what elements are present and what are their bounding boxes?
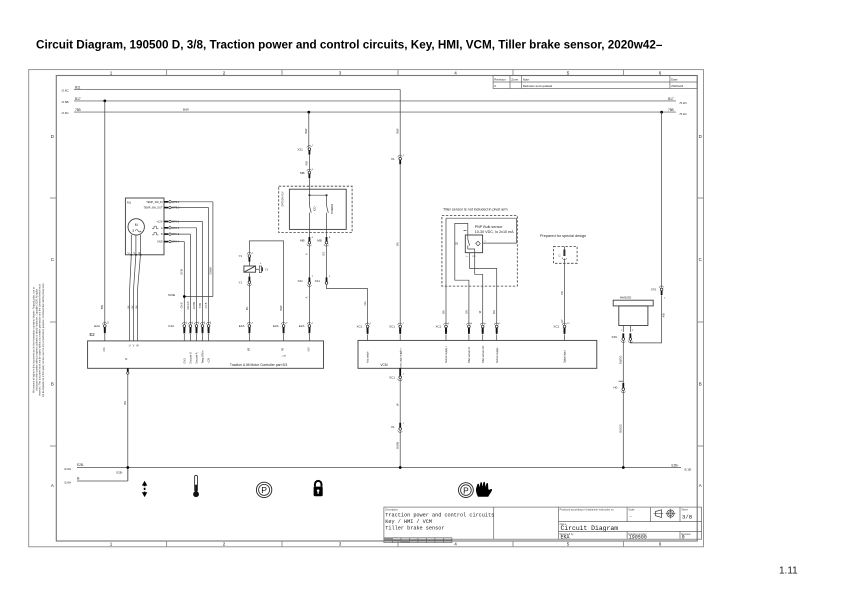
wire POWER to VCM key switch xyxy=(327,285,368,325)
svg-text:C: C xyxy=(699,257,702,262)
svg-text:Tiller sensor DO: Tiller sensor DO xyxy=(482,346,485,363)
svg-text:Scale: Scale xyxy=(628,509,635,512)
svg-text:PK: PK xyxy=(560,291,564,295)
svg-text:Sensor supply +: Sensor supply + xyxy=(445,345,448,363)
svg-text:MTB.2: MTB.2 xyxy=(172,207,180,210)
svg-text:BU: BU xyxy=(123,401,127,405)
controller B- pin and wire xyxy=(123,368,129,481)
icon hand xyxy=(476,482,492,497)
svg-text:1: 1 xyxy=(110,542,113,547)
svg-text:Y1: Y1 xyxy=(239,254,243,258)
svg-text:/5.1D: /5.1D xyxy=(680,101,688,105)
svg-text:75B: 75B xyxy=(75,108,81,112)
svg-text:D: D xyxy=(51,134,54,139)
svg-text:+12V: +12V xyxy=(157,221,163,224)
copyright note (rotated) xyxy=(33,283,45,398)
switch POWER xyxy=(327,195,334,229)
svg-text:Y1: Y1 xyxy=(239,280,243,284)
mini scale ruler xyxy=(384,538,452,543)
svg-text:GND: GND xyxy=(400,363,402,368)
svg-text:Logic supply +: Logic supply + xyxy=(399,347,402,363)
wire B17 to E2A (BN) xyxy=(100,101,105,325)
svg-text:190500: 190500 xyxy=(629,534,647,540)
connector X21 pin (key feed) xyxy=(298,145,314,155)
svg-text:TEMP_SW_OUT: TEMP_SW_OUT xyxy=(143,207,163,210)
svg-text:BK: BK xyxy=(127,305,130,309)
svg-text:MTB.1: MTB.1 xyxy=(172,201,180,204)
controller box (traction & lift) xyxy=(88,341,324,368)
svg-text:C: C xyxy=(559,254,561,258)
svg-text:MB: MB xyxy=(300,171,305,175)
svg-text:6: 6 xyxy=(659,542,662,547)
svg-text:M: M xyxy=(135,223,138,227)
wire MB into option key box xyxy=(308,178,310,195)
node on 75B (X70 drop) xyxy=(660,111,663,114)
wire ICD out xyxy=(308,229,310,237)
svg-text:E2A: E2A xyxy=(239,324,245,328)
svg-text:C: C xyxy=(51,257,54,262)
svg-text:Y/BN: Y/BN xyxy=(199,302,202,308)
wire B11 to X1 xyxy=(395,89,400,157)
wire X21 to E2A (A) xyxy=(305,285,310,325)
svg-text:A/B: A/B xyxy=(305,161,309,165)
svg-text:Sensor supply -: Sensor supply - xyxy=(496,346,499,363)
svg-text:MB: MB xyxy=(317,239,322,243)
wire X21 to MB xyxy=(305,155,310,171)
svg-text:75B: 75B xyxy=(668,108,674,112)
svg-text:4: 4 xyxy=(454,70,457,75)
wire bus E2B- xyxy=(64,463,691,471)
svg-text:-CM: -CM xyxy=(282,356,286,358)
svg-text:MB: MB xyxy=(247,347,250,351)
svg-text:B11: B11 xyxy=(75,85,81,89)
svg-text:MTA.3: MTA.3 xyxy=(172,233,180,236)
svg-text:GN/BK: GN/BK xyxy=(209,266,212,274)
wire 75B to key switch xyxy=(304,112,309,148)
device HMS/2D xyxy=(613,295,653,332)
svg-text:/2.6C: /2.6C xyxy=(62,111,70,115)
connector Y1 lower pin xyxy=(239,277,252,286)
connector MB pin (ICD out) xyxy=(300,237,314,246)
label E2 xyxy=(90,332,96,337)
svg-text:X70: X70 xyxy=(651,288,657,292)
switch ICD xyxy=(309,194,328,229)
svg-text:P: P xyxy=(261,485,267,495)
node NONE junction xyxy=(168,294,186,298)
svg-text:Encoder B: Encoder B xyxy=(190,352,193,364)
svg-text:BK: BK xyxy=(135,305,138,309)
connector X29 pins xyxy=(612,333,633,342)
svg-text:GY/B: GY/B xyxy=(181,269,184,275)
valve coil Y1 xyxy=(244,262,269,279)
wire X29 to H pin (BU/OG) xyxy=(619,341,624,383)
svg-text:XC1: XC1 xyxy=(389,325,395,329)
connector E2A pin (controller B+) xyxy=(94,322,109,341)
projection symbol xyxy=(654,509,676,519)
svg-text:B/W: B/W xyxy=(279,305,283,310)
revision table xyxy=(493,76,697,89)
svg-text:KSI: KSI xyxy=(103,347,106,351)
svg-text:10-30 VDC, Io 2x10 mA: 10-30 VDC, Io 2x10 mA xyxy=(475,230,514,234)
node E2B- junctions xyxy=(126,466,624,469)
svg-text:Circuit Diagram, 190500 D, 3/8: Circuit Diagram, 190500 D, 3/8, Traction… xyxy=(36,39,663,52)
connector X1 pin (lower) xyxy=(391,423,405,433)
svg-text:BU/W: BU/W xyxy=(395,441,399,448)
svg-text:X21: X21 xyxy=(298,147,304,151)
svg-text:BN: BN xyxy=(245,306,249,310)
node on 75B (ICD drop) xyxy=(307,111,310,114)
svg-text:H0: H0 xyxy=(614,385,618,389)
svg-text:A: A xyxy=(51,483,54,488)
svg-text:not be imparted to a third par: not be imparted to a third party nor be … xyxy=(42,283,45,398)
svg-text:XC1: XC1 xyxy=(357,325,363,329)
wire labels sensor chains xyxy=(441,310,496,314)
svg-text:B17: B17 xyxy=(668,97,674,101)
svg-text:BK: BK xyxy=(131,305,134,309)
svg-text:U: U xyxy=(129,344,131,347)
svg-text:/2.6B: /2.6B xyxy=(62,100,69,104)
svg-text:Redrawn and updated: Redrawn and updated xyxy=(523,84,553,88)
svg-text:4: 4 xyxy=(454,542,457,547)
svg-text:Tiller brake sensor: Tiller brake sensor xyxy=(385,526,444,532)
inner drawing frame xyxy=(50,70,704,547)
wire X1 to XC1 (BN) xyxy=(395,165,400,326)
svg-text:BU/OG: BU/OG xyxy=(619,356,623,364)
icon parking brake P xyxy=(256,482,271,497)
svg-text:NONE: NONE xyxy=(168,294,176,297)
svg-text:/2.6C: /2.6C xyxy=(62,89,70,93)
svg-text:E2: E2 xyxy=(90,332,96,337)
connector X70 pin xyxy=(651,112,666,300)
motor M1 pins MTB/MTA xyxy=(143,201,180,244)
svg-text:MTA.1: MTA.1 xyxy=(172,221,180,224)
svg-text:B/W: B/W xyxy=(304,128,308,133)
svg-text:BN: BN xyxy=(395,242,399,246)
svg-text:GN: GN xyxy=(464,310,468,314)
connector XC1 pin (logic supply) xyxy=(389,323,405,340)
svg-text:Temp SW In: Temp SW In xyxy=(202,350,205,364)
svg-text:Traction & lift Motor Controll: Traction & lift Motor Controller part 5/… xyxy=(230,363,287,367)
svg-text:M1: M1 xyxy=(127,201,131,205)
svg-text:X1: X1 xyxy=(391,425,395,429)
page number xyxy=(779,566,798,577)
svg-text:Digital input: Digital input xyxy=(564,350,567,363)
svg-text:V: V xyxy=(133,251,135,255)
connector XC1 pin (key switch) xyxy=(357,323,373,340)
connector E2A pin (KSI) xyxy=(299,322,314,340)
svg-text:ICD: ICD xyxy=(312,207,316,212)
connector MB pin (key feed) xyxy=(300,169,314,178)
icon thermometer xyxy=(193,475,199,497)
svg-text:A/B: A/B xyxy=(662,313,666,317)
svg-text:Produced according to Unitplan: Produced according to Unitplanner instru… xyxy=(560,509,615,512)
wire H pin to E2B- xyxy=(619,391,624,468)
svg-text:/5.1B: /5.1B xyxy=(684,467,691,471)
svg-text:2: 2 xyxy=(223,70,226,75)
connector E2A pin (coil+) xyxy=(273,322,288,340)
svg-text:MTA.4: MTA.4 xyxy=(172,241,180,244)
wire labels C2A group xyxy=(181,301,208,309)
svg-text:PU: PU xyxy=(472,256,475,258)
svg-text:1.11: 1.11 xyxy=(779,566,798,577)
svg-text:B/W: B/W xyxy=(183,108,189,112)
wire POWER out xyxy=(326,229,328,237)
svg-text:A: A xyxy=(305,253,309,255)
svg-text:B: B xyxy=(51,382,54,387)
connector XC1 pins (sensor) xyxy=(436,323,501,340)
svg-text:HMS/2D: HMS/2D xyxy=(620,295,632,299)
connector XC1 pin (digital input) xyxy=(553,323,570,340)
connector X21 pin (ICD out) xyxy=(298,276,314,287)
sensor S9 xyxy=(454,235,482,258)
svg-text:OG: OG xyxy=(363,301,367,305)
svg-text:XC1: XC1 xyxy=(389,376,395,380)
svg-text:GND: GND xyxy=(157,241,163,244)
svg-text:3: 3 xyxy=(132,229,134,233)
svg-text:/2.6A: /2.6A xyxy=(64,481,71,485)
svg-text:X21: X21 xyxy=(315,279,321,283)
svg-text:E2B-: E2B- xyxy=(77,463,84,467)
svg-text:3: 3 xyxy=(339,70,342,75)
connector Y1 upper pin xyxy=(239,252,254,261)
wire C to XC1 (PK) xyxy=(560,259,565,326)
svg-text:1: 1 xyxy=(110,70,113,75)
wire bus B- xyxy=(64,468,128,485)
svg-text:A: A xyxy=(305,296,309,298)
switch module OPTION KEY box xyxy=(279,186,352,232)
svg-text:2020w42: 2020w42 xyxy=(671,84,684,88)
wire MB to X21 (A) xyxy=(305,244,310,277)
svg-text:E2A: E2A xyxy=(299,324,305,328)
svg-text:Revision: Revision xyxy=(494,77,506,81)
svg-text:Key switch: Key switch xyxy=(367,351,370,363)
svg-text:+12V: +12V xyxy=(208,357,211,363)
svg-text:GY: GY xyxy=(561,319,564,323)
wire Y1 to E2A (BN) xyxy=(245,284,250,325)
svg-text:Prepared for special design: Prepared for special design xyxy=(540,234,586,238)
svg-text:OG/GN: OG/GN xyxy=(187,301,190,309)
svg-text:X29: X29 xyxy=(612,335,618,339)
svg-text:B-: B- xyxy=(77,477,80,481)
svg-text:Key / HMI / VCM: Key / HMI / VCM xyxy=(385,519,432,525)
svg-text:GY/B: GY/B xyxy=(205,302,208,308)
svg-text:OG: OG xyxy=(322,252,326,256)
svg-text:B: B xyxy=(699,382,702,387)
svg-text:E2B-: E2B- xyxy=(117,470,123,474)
svg-text:BN: BN xyxy=(441,310,445,314)
svg-text:BN: BN xyxy=(100,305,104,309)
wire bus B17 xyxy=(62,97,688,105)
svg-text:Y1: Y1 xyxy=(265,268,269,272)
wire Y1 branch top xyxy=(249,241,283,325)
svg-text:/2.6A: /2.6A xyxy=(64,467,71,471)
svg-text:Sheet: Sheet xyxy=(681,509,688,512)
connector X1 pin xyxy=(391,155,405,165)
svg-text:/5.1D: /5.1D xyxy=(680,112,688,116)
node on B17 xyxy=(103,100,106,103)
svg-text:3/8: 3/8 xyxy=(682,514,692,521)
svg-text:Note: Note xyxy=(523,77,530,81)
outer border frame xyxy=(29,70,704,547)
svg-text:KSI: KSI xyxy=(307,347,310,351)
controller box VCM xyxy=(358,340,597,368)
sensor S9 module dashed box xyxy=(442,216,517,287)
svg-text:POWER: POWER xyxy=(330,204,334,214)
connector E2A pin (coil-) xyxy=(239,322,254,340)
svg-text:P: P xyxy=(463,485,469,495)
svg-text:B/W: B/W xyxy=(395,128,399,133)
page title xyxy=(36,39,663,52)
svg-text:B-: B- xyxy=(125,358,128,361)
motor M1 box xyxy=(125,198,164,256)
connector H70 pin xyxy=(614,381,626,393)
note special design xyxy=(540,234,586,238)
wire XC1 to X1 (W) xyxy=(395,379,400,423)
svg-text:TEMP_SW_IN: TEMP_SW_IN xyxy=(146,201,162,204)
capacitor C module dashed box xyxy=(554,247,578,264)
icon padlock xyxy=(314,481,323,496)
svg-text:EKA: EKA xyxy=(561,534,570,540)
svg-text:3: 3 xyxy=(339,542,342,547)
svg-text:0: 0 xyxy=(682,534,685,540)
svg-text:MTA.2: MTA.2 xyxy=(172,227,180,230)
svg-text:Encoder A: Encoder A xyxy=(196,352,199,363)
svg-text:E2A: E2A xyxy=(273,324,279,328)
svg-text:A: A xyxy=(699,483,702,488)
connector MB pin (POWER out) xyxy=(317,237,331,246)
wires U V W motor to controller xyxy=(127,235,140,341)
svg-text:E2B-: E2B- xyxy=(672,463,679,467)
svg-text:XC1: XC1 xyxy=(436,325,442,329)
svg-text:GN/BN: GN/BN xyxy=(193,301,196,309)
title block xyxy=(384,507,702,540)
svg-text:X21: X21 xyxy=(298,279,304,283)
connector X21 pin (POWER out) xyxy=(315,276,331,284)
svg-text:U: U xyxy=(128,251,130,255)
svg-text:Tiller sensor is not included: Tiller sensor is not included in pivot a… xyxy=(443,207,508,211)
svg-text:X1: X1 xyxy=(391,157,395,161)
svg-text:BU/OG: BU/OG xyxy=(619,424,623,432)
svg-text:Tiller sensor DI: Tiller sensor DI xyxy=(468,347,471,363)
svg-text:C2A: C2A xyxy=(168,324,174,328)
svg-text:Date: Date xyxy=(671,77,678,81)
svg-text:PB: PB xyxy=(282,348,285,352)
wire X70 to X29 (A/B) xyxy=(630,295,665,343)
svg-text:6: 6 xyxy=(659,70,662,75)
wire bus B11 xyxy=(62,85,401,92)
svg-text:5: 5 xyxy=(567,70,570,75)
svg-text:E2A: E2A xyxy=(94,324,100,328)
wire bus 75B xyxy=(62,108,688,116)
svg-text:BU: BU xyxy=(492,310,496,314)
wire X1 to E2B- (BU/W) xyxy=(395,431,400,468)
svg-text:Traction power and control cir: Traction power and control circuits xyxy=(385,512,494,518)
svg-text:B17: B17 xyxy=(75,97,81,101)
svg-text:PNP Bulk sensor: PNP Bulk sensor xyxy=(475,225,504,229)
connector XC1 pin (VCM GND out) xyxy=(389,368,405,381)
svg-text:5: 5 xyxy=(567,542,570,547)
wires motor encoder to C2A xyxy=(171,202,213,325)
svg-text:2: 2 xyxy=(223,542,226,547)
sensor outline wires xyxy=(446,218,517,325)
wire MB to X21 (OG) xyxy=(322,244,327,277)
svg-text:XC1: XC1 xyxy=(553,325,559,329)
icon parking brake P 2 xyxy=(459,483,474,498)
svg-text:Circuit Diagram: Circuit Diagram xyxy=(561,525,619,532)
svg-text:D: D xyxy=(699,134,702,139)
svg-text:MB: MB xyxy=(300,239,305,243)
svg-text:VCM: VCM xyxy=(380,363,387,367)
note tiller sensor xyxy=(443,207,508,211)
svg-text:OPTION KEY: OPTION KEY xyxy=(282,191,285,207)
svg-text:Description: Description xyxy=(385,509,398,512)
icon speed arrows xyxy=(142,481,147,497)
connector C2A pins xyxy=(168,322,212,341)
svg-text:GN/B: GN/B xyxy=(181,302,184,308)
svg-text:Zone: Zone xyxy=(511,77,518,81)
svg-text:GND: GND xyxy=(183,358,186,364)
